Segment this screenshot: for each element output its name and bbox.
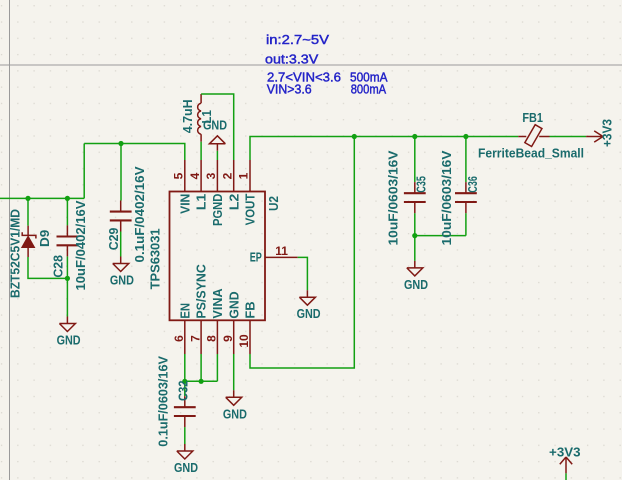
svg-text:9: 9 xyxy=(221,335,235,342)
svg-text:U2: U2 xyxy=(266,196,281,211)
svg-text:VINA: VINA xyxy=(210,288,225,319)
svg-text:5: 5 xyxy=(172,172,186,179)
svg-text:C36: C36 xyxy=(465,176,480,192)
svg-text:D9: D9 xyxy=(37,230,52,247)
svg-text:8: 8 xyxy=(205,335,219,342)
svg-text:VIN: VIN xyxy=(177,194,192,214)
svg-text:C28: C28 xyxy=(51,255,66,278)
svg-text:0.1uF/0603/16V: 0.1uF/0603/16V xyxy=(156,356,171,447)
svg-text:C29: C29 xyxy=(106,228,121,251)
svg-text:L1: L1 xyxy=(194,194,209,211)
svg-text:0.1uF/0402/16V: 0.1uF/0402/16V xyxy=(132,166,147,262)
svg-text:out:3.3V: out:3.3V xyxy=(265,51,319,66)
svg-text:BZT52C5V1/MD: BZT52C5V1/MD xyxy=(7,209,22,298)
svg-text:6: 6 xyxy=(172,335,186,342)
svg-text:+3V3: +3V3 xyxy=(600,119,615,147)
svg-text:1: 1 xyxy=(237,172,251,179)
svg-text:VIN>3.6: VIN>3.6 xyxy=(267,81,312,96)
svg-text:10uF/0603/16V: 10uF/0603/16V xyxy=(385,150,400,245)
svg-text:4.7uH: 4.7uH xyxy=(180,99,195,133)
svg-text:10: 10 xyxy=(237,334,251,348)
svg-text:FB1: FB1 xyxy=(522,110,543,125)
svg-text:L2: L2 xyxy=(226,194,241,211)
svg-text:10uF/0603/16V: 10uF/0603/16V xyxy=(439,150,454,245)
svg-text:PGND: PGND xyxy=(210,194,225,226)
svg-text:GND: GND xyxy=(226,291,241,318)
svg-text:7: 7 xyxy=(188,335,202,342)
svg-text:3: 3 xyxy=(204,172,218,179)
svg-text:L1: L1 xyxy=(199,110,214,123)
svg-text:11: 11 xyxy=(275,244,288,258)
svg-text:PS/SYNC: PS/SYNC xyxy=(194,264,209,319)
svg-text:EP: EP xyxy=(250,250,262,265)
svg-text:+3V3: +3V3 xyxy=(549,445,581,460)
svg-text:EN: EN xyxy=(177,303,192,319)
svg-text:800mA: 800mA xyxy=(351,81,387,96)
svg-text:10uF/0402/16V: 10uF/0402/16V xyxy=(73,200,88,290)
svg-text:C35: C35 xyxy=(414,176,429,192)
svg-text:C32: C32 xyxy=(176,381,191,402)
svg-text:in:2.7~5V: in:2.7~5V xyxy=(266,32,329,47)
svg-text:2: 2 xyxy=(220,172,234,179)
svg-text:FB: FB xyxy=(243,301,258,318)
svg-text:FerriteBead_Small: FerriteBead_Small xyxy=(478,146,584,161)
svg-text:TPS63031: TPS63031 xyxy=(147,228,162,289)
svg-text:VOUT: VOUT xyxy=(243,194,258,226)
svg-text:4: 4 xyxy=(188,172,202,179)
